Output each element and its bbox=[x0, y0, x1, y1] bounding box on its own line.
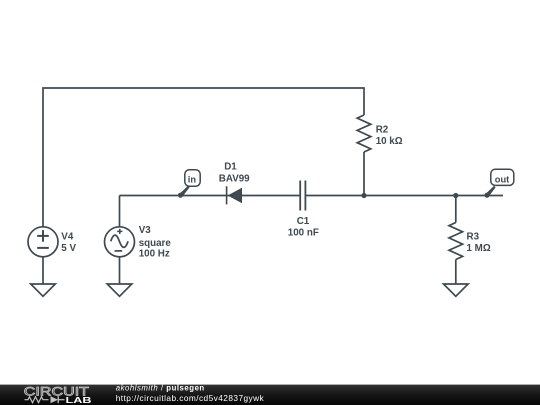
voltage source V4 bbox=[28, 227, 58, 257]
wire: V4 bottom to ground bbox=[42, 257, 44, 284]
capacitor C1 bbox=[300, 181, 305, 211]
wire: main node down to R3 bbox=[455, 196, 457, 223]
resistor R2 bbox=[357, 115, 371, 152]
svg-text:BAV99: BAV99 bbox=[219, 174, 250, 185]
wire: main horizontal net (in node, left of C1) bbox=[120, 195, 301, 197]
svg-text:10 kΩ: 10 kΩ bbox=[376, 136, 403, 147]
svg-text:out: out bbox=[495, 174, 509, 184]
wire: R2 bottom to main node bbox=[363, 152, 365, 196]
wire: main horizontal net (right of C1, out node) bbox=[305, 195, 503, 197]
svg-text:100 nF: 100 nF bbox=[288, 227, 319, 238]
svg-text:1 MΩ: 1 MΩ bbox=[467, 243, 491, 254]
svg-text:C1: C1 bbox=[297, 216, 310, 227]
junction dot at R3 / main node bbox=[453, 193, 458, 198]
svg-text:square: square bbox=[139, 238, 172, 249]
resistor R3 bbox=[449, 223, 463, 260]
junction dot at R2 / main node bbox=[361, 193, 366, 198]
svg-text:100 Hz: 100 Hz bbox=[139, 248, 170, 259]
diode D1 bbox=[227, 186, 242, 204]
node label in (callout) bbox=[178, 170, 200, 198]
CircuitLab logo resistor zigzag bbox=[25, 397, 49, 403]
wire: main node down to V3 bbox=[119, 196, 121, 228]
voltage source V3 (sine symbol) bbox=[105, 227, 135, 257]
svg-text:D1: D1 bbox=[224, 162, 237, 173]
footer bar bbox=[0, 385, 540, 405]
ground (V3) bbox=[107, 284, 132, 296]
svg-text:V4: V4 bbox=[61, 231, 74, 242]
svg-text:V3: V3 bbox=[139, 225, 152, 236]
ground (R3) bbox=[444, 284, 469, 296]
svg-text:5 V: 5 V bbox=[61, 243, 76, 254]
svg-text:LAB: LAB bbox=[66, 395, 92, 405]
svg-text:R3: R3 bbox=[467, 232, 480, 243]
CircuitLab logo diode bbox=[51, 396, 65, 403]
svg-text:R2: R2 bbox=[376, 125, 389, 136]
wire: V4 top to R2 top (left vertical, top horizontal, right drop) bbox=[43, 88, 364, 228]
svg-text:akohlsmith / pulsegen: akohlsmith / pulsegen bbox=[116, 384, 205, 393]
wire: V3 bottom to ground bbox=[119, 257, 121, 284]
ground (V4) bbox=[31, 284, 56, 296]
svg-text:http://circuitlab.com/cd5v4283: http://circuitlab.com/cd5v42837gywk bbox=[116, 393, 265, 403]
svg-text:in: in bbox=[188, 174, 197, 184]
node label out (callout) bbox=[484, 169, 513, 198]
wire: R3 bottom to ground bbox=[455, 260, 457, 285]
